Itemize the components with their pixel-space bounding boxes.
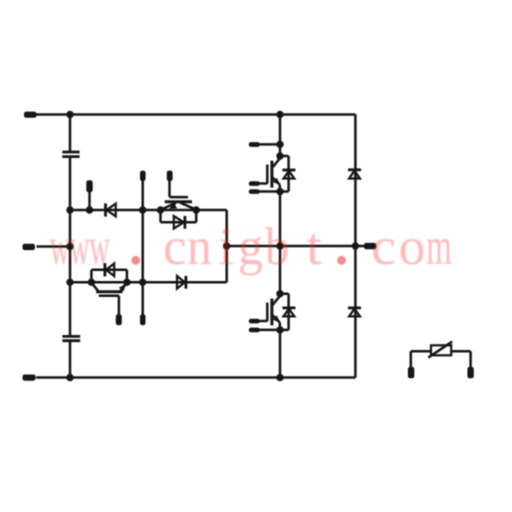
svg-text:n: n <box>187 218 212 277</box>
svg-text:t: t <box>306 217 321 276</box>
svg-text:c: c <box>371 217 396 276</box>
svg-text:c: c <box>163 218 187 276</box>
svg-text:w: w <box>89 218 110 277</box>
svg-text:g: g <box>238 218 263 277</box>
svg-text:m: m <box>426 217 452 276</box>
svg-text:w: w <box>50 218 71 277</box>
svg-text:i: i <box>218 217 234 276</box>
svg-text:o: o <box>399 218 426 276</box>
svg-text:b: b <box>265 218 289 276</box>
svg-text:w: w <box>69 218 90 277</box>
